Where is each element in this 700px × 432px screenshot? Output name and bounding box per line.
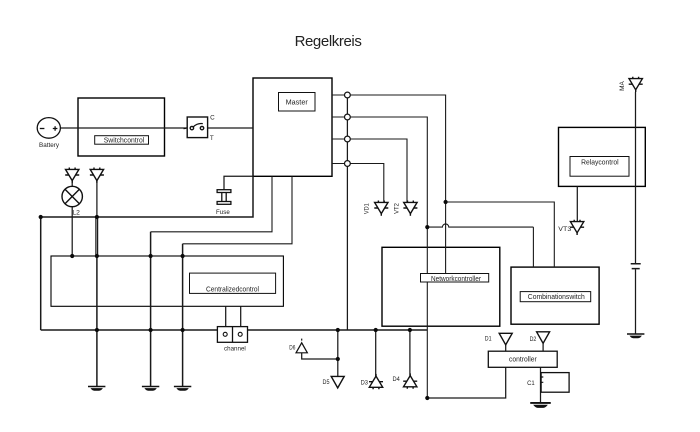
svg-text:Master: Master	[286, 100, 309, 107]
svg-text:MA: MA	[619, 80, 626, 91]
svg-text:D6: D6	[289, 345, 295, 352]
svg-text:Regelkreis: Regelkreis	[295, 33, 362, 50]
svg-text:Centralizedcontrol: Centralizedcontrol	[206, 286, 259, 293]
svg-text:D4: D4	[393, 376, 401, 383]
svg-text:Switchcontrol: Switchcontrol	[104, 138, 145, 145]
svg-text:C: C	[210, 114, 215, 121]
svg-text:D1: D1	[485, 336, 492, 343]
svg-text:D2: D2	[530, 336, 537, 343]
svg-text:Relaycontrol: Relaycontrol	[581, 160, 619, 167]
svg-text:D3: D3	[361, 379, 369, 386]
svg-text:T: T	[210, 135, 214, 142]
svg-text:controller: controller	[509, 357, 537, 364]
svg-text:Combinationswitch: Combinationswitch	[528, 294, 585, 301]
svg-text:VT3: VT3	[558, 226, 572, 233]
svg-text:D5: D5	[323, 379, 330, 386]
svg-text:Networkcontroller: Networkcontroller	[431, 276, 482, 283]
svg-text:L2: L2	[72, 209, 80, 216]
svg-text:Fuse: Fuse	[216, 209, 230, 216]
svg-text:C1: C1	[527, 380, 535, 387]
svg-text:VT2: VT2	[393, 203, 400, 214]
svg-text:Battery: Battery	[39, 142, 60, 149]
svg-text:channel: channel	[224, 346, 246, 353]
svg-text:VD1: VD1	[364, 203, 371, 214]
